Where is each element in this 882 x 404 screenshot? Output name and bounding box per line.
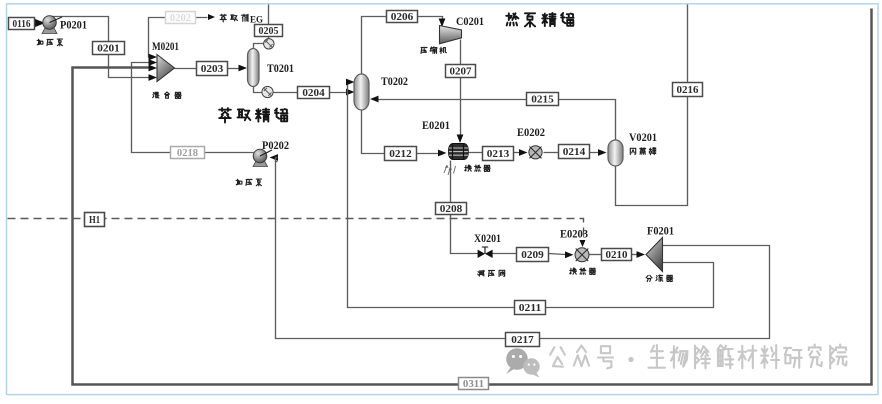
stream 0202 faded <box>166 12 196 24</box>
stream 0203 <box>197 62 228 76</box>
svg-text:E0202: E0202 <box>517 127 545 139</box>
svg-text:0205: 0205 <box>259 26 279 37</box>
wire F0201 top outlet to 0217 return to P0202 <box>276 162 770 339</box>
mixer M0201 <box>149 54 175 82</box>
stream 0209 <box>517 248 549 262</box>
watermark text <box>550 346 613 369</box>
stream 0116 <box>9 18 35 30</box>
wire X0201 valve to 0209 to E0203 <box>493 253 517 255</box>
svg-text:T0202: T0202 <box>381 76 408 88</box>
wire T0201 bottom to reboiler to 0204 to T0202 <box>254 86 263 93</box>
svg-text:P0202: P0202 <box>262 140 289 152</box>
wire C0201 outlet 0207 down to E0201 <box>460 40 462 135</box>
svg-text:0202: 0202 <box>170 13 191 24</box>
stream 0216 <box>673 83 703 97</box>
heat stream H1 label <box>85 213 105 227</box>
pump P0201 <box>34 16 62 34</box>
wire E0202 to 0214 to V0201 <box>544 152 599 154</box>
column T0202 <box>354 74 369 110</box>
svg-text:0218: 0218 <box>177 148 198 159</box>
wire condenser to 0205 off-page top <box>268 5 270 40</box>
svg-text:EG: EG <box>250 15 263 25</box>
svg-text:T0201: T0201 <box>267 63 294 75</box>
svg-text:0215: 0215 <box>531 95 554 106</box>
pump P0202 <box>253 149 272 166</box>
svg-text:0217: 0217 <box>511 335 534 346</box>
watermark wechat icon <box>506 348 540 377</box>
stream 0201 <box>93 42 125 55</box>
stream 0212 <box>385 147 417 161</box>
svg-text:0204: 0204 <box>302 88 325 99</box>
svg-text:0213: 0213 <box>487 149 510 160</box>
stream 0204 <box>298 87 330 99</box>
svg-text:E0203: E0203 <box>560 229 588 241</box>
wire 0116 to P0201 pump <box>34 23 38 25</box>
svg-text:0207: 0207 <box>450 67 473 78</box>
svg-text:0201: 0201 <box>97 44 120 55</box>
wire mixer outlet 0203 to T0201 <box>175 68 240 70</box>
splitter F0201 <box>646 238 663 272</box>
stream 0211 <box>515 301 546 315</box>
svg-text:0206: 0206 <box>391 12 414 23</box>
wire E0201 to 0213 to E0202 <box>469 152 520 154</box>
stream 0218 faded <box>171 147 205 159</box>
compressor C0201 <box>440 26 462 44</box>
svg-text:0116: 0116 <box>13 19 31 30</box>
svg-text:0211: 0211 <box>519 303 542 314</box>
wire EG makeup junction to mixer top <box>149 18 208 58</box>
svg-text:V0201: V0201 <box>629 132 657 144</box>
arrow into P0202 inlet <box>270 154 279 161</box>
stream 0213 <box>483 147 514 161</box>
condensate drip marks under E0201 <box>444 165 456 175</box>
svg-text:0208: 0208 <box>440 204 463 215</box>
wire T0201 top to condenser <box>254 44 264 51</box>
stream 0215 <box>527 93 559 106</box>
wire E0203 to 0210 to F0201 splitter <box>590 254 602 256</box>
svg-text:0203: 0203 <box>201 64 224 75</box>
svg-text:0212: 0212 <box>389 149 412 160</box>
svg-text:M0201: M0201 <box>152 41 179 53</box>
svg-text:0209: 0209 <box>521 250 544 261</box>
heat exchanger E0203 <box>575 248 589 262</box>
stream 0208 <box>436 203 467 215</box>
svg-text:P0201: P0201 <box>60 20 87 32</box>
stream 0217 <box>506 333 540 347</box>
stream 0206 <box>387 11 418 23</box>
wire V0201 top to 0215 into T0202 right side <box>379 100 616 142</box>
wire T0202 top to 0206 to C0201 compressor <box>362 17 443 77</box>
valve X0201 <box>478 247 493 258</box>
header heat pump distillation <box>506 13 573 27</box>
svg-text:F0201: F0201 <box>647 226 674 238</box>
svg-text:C0201: C0201 <box>456 16 484 28</box>
wire P0201 outlet to mixer via 0201 <box>51 17 151 78</box>
svg-text:E0201: E0201 <box>422 120 450 132</box>
wire T0202 bottom to 0212 to E0201 <box>362 109 439 154</box>
stream 0210 <box>602 249 632 261</box>
column T0201 <box>248 49 260 87</box>
wire F0201 bottom outlet to 0211 return to T0202 <box>348 83 714 308</box>
svg-text:0214: 0214 <box>563 147 586 158</box>
wire E0201 bottom to 0208 to X0201 valve <box>451 161 479 254</box>
reboiler of T0201 <box>262 86 273 97</box>
svg-text:0311: 0311 <box>463 379 484 390</box>
heat stream H1 dashed line to E0203 <box>8 219 584 242</box>
stream 0205 <box>255 25 283 37</box>
header extractive distillation <box>219 108 287 122</box>
label extractant EG <box>220 14 248 22</box>
flash drum V0201 <box>608 140 623 166</box>
stream 0207 <box>446 65 476 78</box>
wire P0202 outlet 0218 up to mixer <box>132 63 254 153</box>
svg-text:H1: H1 <box>89 215 100 226</box>
heat exchanger E0202 <box>529 146 542 159</box>
svg-text:X0201: X0201 <box>474 233 501 245</box>
condenser of T0201 <box>264 39 274 49</box>
svg-text:0216: 0216 <box>677 85 699 96</box>
heat exchanger E0201 <box>449 144 469 160</box>
svg-text:0210: 0210 <box>606 250 628 261</box>
wire V0201 bottom loop to 0216 off-page top <box>616 5 688 206</box>
stream 0311 faded <box>459 378 489 390</box>
stream 0214 <box>559 145 590 159</box>
